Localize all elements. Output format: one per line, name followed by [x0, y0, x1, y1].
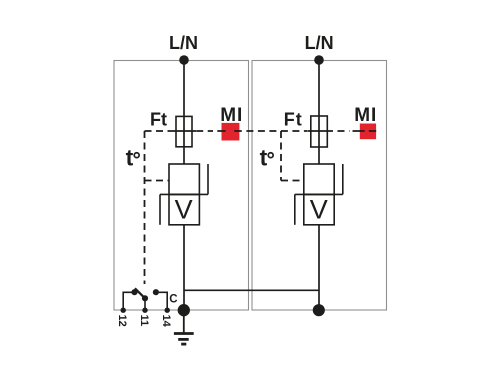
- dashed actuator line: module gap to right fuse: [246, 130, 307, 132]
- svg-text:V: V: [175, 194, 193, 224]
- svg-text:Ft: Ft: [284, 110, 303, 130]
- node: L/N terminal (right): [314, 55, 324, 65]
- svg-text:14: 14: [160, 315, 172, 328]
- solid crossing through fuse (left): [172, 130, 196, 132]
- dashed actuator vertical line (left): [144, 131, 146, 284]
- indicator MI red square (right): [360, 124, 376, 140]
- svg-text:V: V: [310, 194, 328, 224]
- wire: terminal 11 up to pivot: [144, 298, 146, 310]
- dashed branch to varistor disconnector (right): [281, 180, 304, 182]
- dashed actuator line: fuse to MI indicator (right): [338, 130, 350, 132]
- node: bottom junction (left): [178, 304, 190, 316]
- dashed actuator line over MI square (left): [217, 130, 242, 132]
- svg-text:12: 12: [116, 315, 128, 327]
- svg-text:MI: MI: [220, 105, 243, 126]
- switch blade: [135, 288, 145, 298]
- svg-text:t: t: [260, 145, 268, 171]
- svg-text:t: t: [126, 145, 134, 171]
- fuse Ft (left): [176, 116, 192, 146]
- svg-text:L/N: L/N: [169, 33, 198, 53]
- earth bus wire between modules: [184, 289, 319, 291]
- svg-text:Ft: Ft: [150, 110, 167, 130]
- node: bottom junction (right): [313, 304, 325, 316]
- contact NO dot (14 side): [153, 289, 159, 295]
- wire: varistor to bottom junction (right): [318, 225, 320, 310]
- wire: terminal 12 up to NC contact: [123, 292, 131, 310]
- wire: L/N terminal down through fuse to varistor (left): [183, 60, 185, 164]
- node: L/N terminal (left): [179, 55, 189, 65]
- dashed actuator vertical line (right): [280, 131, 282, 181]
- ground symbol: [174, 310, 194, 344]
- wire: varistor to bottom junction (left): [183, 225, 185, 310]
- svg-text:11: 11: [138, 315, 150, 327]
- varistor with thermal disconnector (right): boxes and break contacts: [295, 164, 343, 225]
- enclosure outline left SPD module: [114, 61, 249, 311]
- fuse Ft (right): [311, 116, 328, 147]
- dashed actuator line over MI square (right): [353, 130, 377, 132]
- wire: L/N terminal down through fuse to varistor (right): [318, 60, 320, 164]
- dashed actuator line: t° corner to fuse (left): [145, 130, 173, 132]
- node: terminal 14: [165, 308, 170, 313]
- svg-text:C: C: [169, 293, 177, 305]
- svg-text:L/N: L/N: [305, 33, 334, 53]
- wire: NO contact to terminal 14: [159, 292, 167, 310]
- node: terminal 11: [142, 308, 147, 313]
- dashed branch to varistor disconnector (left): [145, 180, 170, 182]
- contact pivot dot (11): [142, 295, 148, 301]
- varistor with thermal disconnector (left): boxes and break contacts: [160, 164, 208, 225]
- indicator MI red square (left): [222, 123, 240, 141]
- dashed actuator line: fuse to MI indicator (left): [196, 130, 213, 132]
- solid crossing through fuse (right): [307, 130, 333, 132]
- node: terminal 12: [121, 308, 126, 313]
- enclosure outline right SPD module: [252, 61, 387, 311]
- contact NC dot (12 side): [131, 289, 137, 295]
- svg-text:MI: MI: [354, 105, 377, 126]
